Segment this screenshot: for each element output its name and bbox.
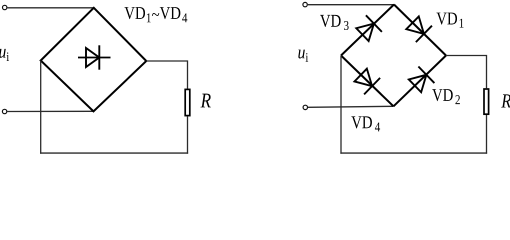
- wire resistor bottom to rail: [187, 116, 189, 153]
- wire bottom input to bridge bottom vertex: [7, 110, 94, 112]
- wire resistor bottom to rail: [486, 115, 488, 154]
- wire bottom rail: [40, 152, 188, 154]
- label VD2: [432, 89, 460, 104]
- resistor R2 body: [484, 89, 489, 114]
- label R (right load resistor): [501, 94, 510, 107]
- label R (load resistor): [201, 94, 211, 108]
- diode VD4 (left node to bottom node): [353, 67, 380, 95]
- wire bottom input to bridge bottom node: [308, 106, 394, 107]
- diode symbol inside bridge: [78, 45, 111, 69]
- diode VD1 (top node to right node): [405, 15, 432, 43]
- wire top input to bridge top vertex: [7, 7, 94, 9]
- label VD3: [320, 15, 349, 30]
- wire top input to bridge top node: [308, 4, 394, 6]
- resistor R1 body: [185, 89, 190, 115]
- diode VD3 (left node to top node): [354, 15, 381, 43]
- wire left node down: [340, 56, 342, 154]
- wire right node to resistor branch: [446, 56, 487, 89]
- wire right vertex to resistor branch: [146, 61, 187, 89]
- terminal (top input): [303, 2, 307, 6]
- label ui (left input voltage): [0, 49, 9, 61]
- bridge edge wire L-B: [341, 56, 394, 107]
- label VD1: [436, 13, 463, 28]
- label ui (right input voltage): [298, 50, 308, 62]
- bridge edge wire L-T: [341, 5, 394, 56]
- bridge edge wire B-R: [394, 56, 447, 107]
- terminal (top-left input): [2, 5, 6, 9]
- wire bottom rail: [340, 152, 487, 154]
- wire left vertex down: [40, 61, 42, 154]
- bridge block (diamond): [41, 8, 147, 112]
- label VD1~VD4: [124, 7, 187, 22]
- diode VD2 (bottom node to right node): [407, 67, 434, 95]
- label VD4: [351, 116, 380, 131]
- terminal (bottom-left input): [2, 109, 6, 113]
- terminal (bottom input): [303, 105, 307, 109]
- bridge edge wire T-R: [394, 5, 446, 56]
